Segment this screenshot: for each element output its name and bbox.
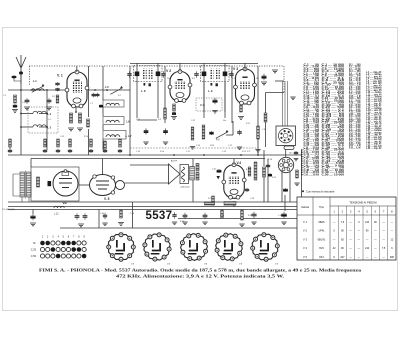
ground C3 [24, 107, 30, 110]
wire V1 topcap [76, 66, 78, 72]
trimmer PV [216, 130, 228, 138]
junction [46, 89, 48, 91]
junction [94, 89, 96, 91]
capacitor C6 [55, 88, 59, 92]
resistor R13 [202, 125, 205, 139]
wire plate rail [130, 62, 258, 64]
wire bus B [8, 206, 302, 208]
ground shield [272, 70, 278, 73]
note bullet text [302, 190, 335, 194]
svg-text:C.22: C.22 [136, 119, 140, 121]
svg-text:V 5: V 5 [303, 255, 307, 259]
box V6 [31, 167, 79, 201]
svg-text:C.40: C.40 [196, 145, 200, 147]
resistor R4 [79, 113, 82, 123]
wire left drop [265, 93, 267, 114]
ground R1 [12, 110, 18, 113]
svg-text:C.43: C.43 [220, 215, 224, 217]
svg-text:280: 280 [390, 256, 395, 259]
voltage table [297, 197, 396, 260]
dashed box R11 [196, 98, 222, 111]
resistor R22 [120, 210, 123, 218]
svg-text:5537: 5537 [146, 210, 173, 222]
capacitor Ca2 [56, 149, 60, 153]
ground R12 [190, 147, 195, 150]
capacitor C8 [96, 93, 100, 97]
svg-text:C.7: C.7 [90, 103, 93, 105]
capacitor Ca5 [103, 149, 107, 153]
capacitor Ca4 [89, 149, 93, 153]
wire to cable [266, 92, 285, 94]
parts list column 4 [366, 71, 382, 150]
wire osc left [88, 66, 90, 117]
wire osc vertical [102, 66, 104, 100]
capacitor C38 [294, 151, 298, 155]
wire mid top [31, 158, 265, 160]
ground R3 [68, 128, 74, 131]
svg-text:V 3: V 3 [303, 237, 307, 241]
parts list column 1 [304, 65, 321, 177]
svg-text:R.7: R.7 [118, 95, 121, 97]
svg-text:C.25: C.25 [60, 136, 64, 138]
ground C9b [143, 142, 148, 145]
coil L7b boxed [103, 131, 126, 140]
svg-text:C.49: C.49 [278, 215, 282, 217]
ground R31 [239, 224, 244, 227]
svg-text:UF41: UF41 [318, 230, 325, 233]
wire drop 2 [132, 202, 134, 228]
ground C44 [281, 222, 286, 225]
wire V3 topcap [244, 63, 246, 71]
wire plug down 1 [281, 172, 283, 202]
svg-text:L.1: L.1 [33, 79, 37, 83]
resistor Ra2 [57, 139, 60, 147]
wire R25 up [263, 150, 265, 166]
wire fuse to plug [285, 150, 287, 158]
svg-text:V. 1: V. 1 [57, 74, 63, 78]
parts list column 2 [322, 65, 346, 177]
wire left drop b [265, 122, 267, 147]
wire pv up [232, 121, 234, 135]
svg-text:Con riserva di misurarle: Con riserva di misurarle [306, 190, 335, 194]
coil L12 [54, 206, 64, 208]
capacitor C vib [48, 181, 52, 186]
svg-text:C.12: C.12 [228, 145, 232, 147]
resistor R1 [14, 95, 17, 103]
wire plug down 2 [289, 172, 291, 202]
svg-text:6BC41: 6BC41 [318, 238, 326, 241]
svg-text:V 2: V 2 [166, 69, 171, 73]
capacitor Ca6 [118, 149, 122, 153]
wire L9 sec down 2 [224, 82, 226, 113]
svg-text:R.11: R.11 [200, 104, 206, 107]
resistor R30 [248, 167, 251, 176]
resistor Ra1 [44, 139, 47, 147]
switch position table [31, 236, 87, 258]
wire osc vertical b [102, 107, 104, 116]
wire [9, 147, 11, 149]
junction [46, 113, 48, 115]
value labels [3, 78, 282, 223]
wire cable triple [283, 81, 288, 126]
tube socket V.2 [251, 233, 280, 262]
tube V4 [222, 163, 246, 199]
tube V1 [65, 70, 89, 108]
svg-text:L 3: L 3 [48, 127, 52, 130]
capacitor C44b [172, 212, 176, 219]
resistor R23 [196, 164, 199, 172]
svg-text:6BA6: 6BA6 [318, 221, 325, 224]
wire bus C [8, 209, 302, 211]
junction [32, 89, 34, 91]
wire AVC 2 [231, 66, 233, 123]
svg-text:C.28: C.28 [268, 159, 272, 161]
ground R22 [118, 223, 124, 226]
tube socket V.4 [143, 233, 171, 261]
wire V4 down [233, 201, 235, 207]
resistor R3 [70, 113, 73, 123]
svg-text:R.38 ..... 0,3 M: R.38 ..... 0,3 M [349, 147, 361, 149]
svg-text:FIMI S. A. - PHONOLA - Mod. 55: FIMI S. A. - PHONOLA - Mod. 5537 Autorad… [39, 268, 362, 273]
wire osc vertical d [102, 139, 104, 150]
coil L6 boxed [103, 100, 124, 107]
resistor R16 [264, 113, 267, 122]
svg-text:R.12: R.12 [246, 123, 250, 125]
wire L3 right [39, 126, 47, 128]
svg-text:C.4: C.4 [22, 102, 25, 104]
wire V3 right [257, 66, 259, 155]
wire L3 left [21, 126, 33, 128]
wire dotted shield right [283, 66, 285, 93]
capacitor C17 [237, 130, 242, 135]
wire pv link [226, 134, 233, 136]
tube V6 vibrator [53, 170, 78, 196]
resistor R12 [191, 127, 194, 140]
wire to speaker top [130, 164, 169, 166]
svg-text:7,5: 7,5 [341, 221, 345, 224]
connector P2 plug [278, 157, 293, 173]
svg-text:Tipo: Tipo [319, 206, 324, 209]
svg-text:C.30: C.30 [100, 213, 104, 215]
wire bus E [178, 218, 302, 220]
svg-text:V 2: V 2 [303, 229, 307, 233]
tube V5 [90, 175, 125, 196]
wire shield bottom [130, 147, 258, 149]
svg-text:L.5: L.5 [105, 85, 109, 89]
ground R4 [77, 128, 83, 131]
svg-text:V 3: V 3 [233, 67, 238, 71]
junction [75, 111, 77, 113]
capacitor C21 [209, 131, 213, 135]
wire mid left [30, 159, 32, 168]
svg-text:C.21: C.21 [186, 151, 190, 153]
svg-text:C.16: C.16 [136, 151, 140, 153]
svg-text:C.26: C.26 [130, 213, 134, 215]
svg-text:C.41: C.41 [212, 169, 216, 171]
tube socket V.6 [180, 233, 207, 260]
svg-text:207: 207 [340, 256, 345, 259]
resistor R5 [87, 119, 90, 127]
parts list bullets [301, 149, 303, 175]
junction [20, 113, 22, 115]
capacitor C43 [251, 212, 256, 219]
shield box L2 L3 [28, 107, 58, 133]
ground C46 [202, 222, 207, 225]
capacitor C46 [203, 213, 208, 220]
coil L7 boxed [103, 117, 124, 125]
svg-text:C.36: C.36 [250, 198, 254, 200]
ground R26 [294, 183, 299, 186]
wire osc vertical c [102, 125, 104, 130]
svg-text:472 KHz. Alimentazione: 3,9 A: 472 KHz. Alimentazione: 3,9 A e 12 V. Po… [116, 274, 284, 279]
ground C37 [261, 82, 267, 85]
resistor R14 [257, 126, 260, 139]
wire V2 topcap [179, 63, 181, 71]
junction [20, 89, 22, 91]
capacitor C47 [283, 188, 288, 192]
wire osc left low [88, 129, 90, 155]
capacitor C33 [245, 188, 249, 192]
svg-text:L. 9: L. 9 [208, 89, 213, 93]
resistor R29 [205, 202, 215, 205]
wire dotted shield left [29, 66, 31, 86]
svg-text:210: 210 [365, 247, 370, 250]
wire V1 plate to can [88, 89, 130, 91]
svg-text:R.19: R.19 [272, 177, 276, 179]
svg-text:V. 5: V. 5 [104, 197, 110, 201]
wire V4 top [233, 159, 235, 165]
wire ground bus [8, 154, 302, 156]
diode D1 [217, 176, 220, 179]
tube socket V.3 [215, 233, 243, 261]
junction [46, 126, 48, 128]
tube V2 [168, 70, 192, 103]
svg-text:R.5: R.5 [192, 78, 195, 80]
svg-text:R.15: R.15 [242, 151, 246, 153]
ground C38 [294, 159, 299, 161]
resistor R26 [296, 170, 299, 178]
capacitor C44 [281, 212, 287, 219]
capacitor C42 [217, 169, 222, 173]
speaker [169, 164, 181, 184]
ground C43b [102, 223, 107, 226]
trimmer C9 [110, 86, 122, 94]
ground C17 [237, 147, 242, 150]
resistor Ra3 [69, 139, 72, 147]
fuse F1 [284, 146, 294, 149]
wire det drop [192, 159, 194, 203]
resistor Ra6 [119, 139, 122, 147]
output transformer T2 [180, 165, 195, 184]
resistor R2 [56, 95, 59, 103]
antenna [11, 55, 26, 84]
svg-text:R.27: R.27 [208, 198, 212, 200]
svg-text:1M: 1M [256, 78, 259, 80]
svg-text:C.14: C.14 [92, 96, 96, 98]
capacitor C12 [161, 71, 165, 78]
capacitor C43b [103, 213, 107, 220]
capacitor C5 [55, 82, 59, 86]
capacitor C51 [30, 214, 35, 221]
svg-text:V 1: V 1 [303, 220, 307, 224]
capacitor C10 [99, 104, 103, 108]
capacitor C45 [183, 213, 188, 220]
tube socket V.5 [107, 233, 136, 262]
resistor R18 [221, 210, 224, 218]
capacitor C11b [163, 128, 168, 134]
svg-text:L.12: L.12 [54, 214, 59, 216]
wire divider [129, 66, 131, 155]
svg-text:R.24: R.24 [210, 145, 214, 147]
wire input node [8, 89, 68, 91]
ground cable [290, 97, 295, 100]
capacitor C16 [213, 98, 218, 105]
capacitor C13 [194, 71, 198, 78]
resistor Ra4 [90, 139, 93, 147]
svg-text:5p: 5p [125, 136, 127, 138]
capacitor C14 [229, 71, 233, 78]
parts list column 3 [349, 65, 361, 150]
svg-text:R.2: R.2 [247, 151, 250, 153]
svg-text:25p: 25p [167, 78, 170, 80]
wire L9 sec down [203, 82, 205, 113]
wire to speaker bottom [125, 182, 170, 184]
junction [257, 154, 259, 156]
svg-text:L. 8: L. 8 [141, 89, 146, 93]
svg-text:6X4: 6X4 [319, 256, 324, 259]
resistor R17 [212, 196, 215, 205]
svg-text:C.23: C.23 [222, 151, 226, 153]
svg-text:M.: M. [33, 242, 36, 245]
ground C11b [163, 142, 168, 145]
capacitor C15 [172, 112, 176, 115]
svg-text:16.1: 16.1 [289, 153, 293, 155]
svg-text:6V6: 6V6 [319, 247, 324, 250]
capacitor C39 [268, 173, 272, 176]
wire right bus [301, 150, 303, 228]
junction [240, 154, 242, 156]
ground C43 [251, 222, 256, 225]
capacitor C9b [144, 128, 149, 134]
capacitor C11 [127, 71, 131, 78]
svg-text:C.19: C.19 [232, 78, 236, 80]
capacitor Ca0 [8, 149, 12, 153]
resistor R31 [241, 210, 244, 220]
resistor R6 [173, 104, 176, 111]
ground V2 cathode [171, 117, 177, 120]
wire disc drop [267, 159, 269, 203]
resistor R25 [263, 167, 266, 177]
ground C16 [212, 111, 217, 114]
svg-text:R.1: R.1 [52, 96, 55, 98]
resistor R19 [254, 162, 257, 180]
svg-text:210: 210 [365, 221, 370, 224]
svg-text:L.35 ..... imp. AF: L.35 ..... imp. AF [366, 147, 382, 150]
svg-text:C.50 ...... 25 000: C.50 ...... 25 000 [304, 174, 320, 176]
ground C44b [172, 222, 177, 225]
wire C44 up [284, 195, 286, 211]
svg-text:C.8: C.8 [262, 129, 265, 131]
junction [57, 89, 59, 91]
resistor R7b [164, 108, 167, 119]
wire V5 top stub [102, 159, 104, 175]
transformer T1 [13, 171, 31, 203]
wire box to V5 [79, 184, 90, 186]
capacitor C41 [75, 213, 80, 220]
svg-text:P.V.: P.V. [216, 139, 220, 142]
connector P1 socket [276, 126, 296, 146]
wire L2 right [39, 113, 47, 115]
svg-text:R.33: R.33 [248, 215, 252, 217]
coil L3 [33, 125, 46, 127]
coil L11 [224, 202, 236, 206]
junction [20, 126, 22, 128]
svg-text:TENSIONE AI PIEDINI: TENSIONE AI PIEDINI [349, 201, 377, 205]
ground C4 [46, 107, 52, 110]
IF transformer L9 [201, 63, 230, 118]
svg-text:L.4: L.4 [48, 119, 51, 121]
capacitor C2 [13, 104, 17, 108]
capacitor C7 [92, 93, 96, 97]
trimmer C1 [32, 84, 44, 92]
tube V3 [234, 67, 257, 105]
wire C51 [32, 210, 34, 215]
junction [106, 89, 108, 91]
svg-text:V.4: V.4 [237, 161, 242, 165]
resistor R24 [196, 173, 199, 181]
svg-text:R.34: R.34 [180, 221, 184, 223]
coil L2 [33, 111, 46, 113]
wire dotted shield top [29, 65, 284, 67]
svg-text:ALTOP.: ALTOP. [171, 160, 178, 163]
svg-text:50n: 50n [223, 120, 226, 122]
resistor Ra0 [9, 139, 12, 147]
svg-text:C.33: C.33 [112, 136, 116, 138]
junction [203, 154, 205, 156]
coil L1 [31, 89, 44, 91]
wire bus D [60, 227, 302, 229]
wire V1 cathode [75, 107, 77, 112]
svg-text:7,5: 7,5 [382, 247, 386, 250]
ground V3 cathode [238, 117, 244, 120]
svg-text:C.25: C.25 [31, 249, 37, 252]
resistor R8 [240, 105, 243, 112]
wire sec vertical [46, 90, 48, 150]
svg-text:L 2: L 2 [48, 113, 52, 116]
wire L8 bottom link [137, 119, 157, 121]
capacitor C3 [25, 98, 30, 103]
capacitor Ca3 [68, 149, 72, 153]
ground C45 [182, 222, 187, 225]
capacitor C42b [83, 213, 88, 220]
IF transformer L8 [134, 63, 163, 118]
svg-text:Valvola: Valvola [301, 206, 310, 209]
junction [173, 154, 175, 156]
capacitor Ca1 [43, 149, 47, 153]
capacitor C37 [262, 74, 267, 81]
wire antenna down [20, 73, 22, 155]
ground R14 [255, 150, 260, 153]
svg-text:C.31: C.31 [191, 120, 195, 122]
wire drop 1 [98, 210, 100, 229]
svg-text:C.50 .... 10 000: C.50 .... 10 000 [322, 174, 345, 176]
resistor R vib [37, 177, 40, 187]
resistor Ra5 [104, 141, 107, 149]
ground C41 [78, 224, 84, 227]
wire bus A [8, 201, 302, 203]
svg-text:R.16: R.16 [84, 136, 88, 138]
svg-text:V 4: V 4 [303, 246, 307, 250]
